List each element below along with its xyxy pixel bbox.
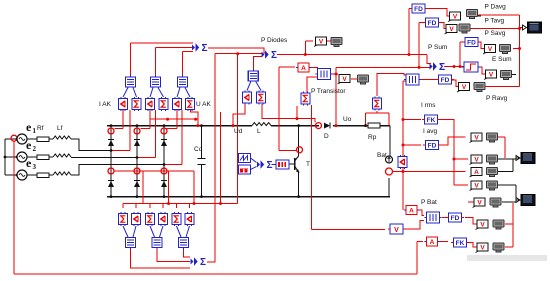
svg-text:Σ: Σ bbox=[439, 62, 445, 73]
svg-text:Bat: Bat bbox=[377, 152, 387, 159]
svg-text:Uo: Uo bbox=[343, 116, 352, 123]
svg-text:L: L bbox=[257, 128, 261, 135]
svg-text:Σ: Σ bbox=[266, 160, 272, 171]
svg-text:I AK: I AK bbox=[99, 101, 112, 108]
svg-text:2: 2 bbox=[33, 145, 37, 153]
svg-text:V: V bbox=[474, 135, 479, 142]
svg-text:1: 1 bbox=[33, 127, 37, 135]
svg-text:Σ: Σ bbox=[201, 43, 207, 54]
svg-text:FK: FK bbox=[427, 117, 436, 124]
svg-text:I rms: I rms bbox=[421, 102, 436, 109]
svg-text:Σ: Σ bbox=[200, 257, 206, 268]
svg-text:V: V bbox=[480, 222, 485, 229]
svg-text:V: V bbox=[474, 157, 479, 164]
svg-text:U AK: U AK bbox=[196, 101, 211, 108]
svg-text:FD: FD bbox=[451, 215, 460, 222]
svg-text:Σ: Σ bbox=[271, 50, 277, 61]
svg-text:I avg: I avg bbox=[423, 128, 437, 135]
svg-text:Co: Co bbox=[194, 146, 203, 153]
svg-text:V: V bbox=[462, 84, 467, 91]
svg-text:D: D bbox=[324, 133, 329, 140]
svg-text:A: A bbox=[474, 169, 479, 176]
svg-text:A: A bbox=[430, 239, 435, 246]
svg-text:V: V bbox=[342, 76, 347, 83]
svg-text:P Diodes: P Diodes bbox=[261, 37, 288, 44]
svg-text:P Transistor: P Transistor bbox=[311, 88, 346, 95]
svg-text:Rf: Rf bbox=[37, 125, 44, 132]
svg-text:V: V bbox=[480, 245, 485, 252]
svg-text:V: V bbox=[489, 72, 494, 79]
svg-text:A: A bbox=[301, 65, 306, 72]
svg-text:FD: FD bbox=[441, 77, 450, 84]
svg-text:P Tavg: P Tavg bbox=[485, 17, 505, 24]
svg-text:FD: FD bbox=[414, 6, 423, 13]
svg-text:V: V bbox=[449, 26, 454, 33]
svg-text:FK: FK bbox=[456, 240, 465, 247]
svg-text:P Davg: P Davg bbox=[485, 4, 507, 11]
svg-text:V: V bbox=[477, 200, 482, 207]
svg-text:V: V bbox=[488, 46, 493, 53]
svg-text:Lf: Lf bbox=[57, 125, 63, 132]
svg-text:T: T bbox=[306, 161, 310, 168]
svg-text:Ud: Ud bbox=[234, 128, 243, 135]
svg-text:P Savg: P Savg bbox=[485, 30, 506, 37]
svg-text:e: e bbox=[26, 138, 32, 152]
svg-text:P Ravg: P Ravg bbox=[486, 95, 508, 102]
svg-text:V: V bbox=[453, 14, 458, 21]
svg-text:Rp: Rp bbox=[368, 134, 377, 141]
svg-text:3: 3 bbox=[33, 163, 37, 171]
svg-text:A: A bbox=[409, 208, 414, 215]
svg-text:V: V bbox=[394, 227, 399, 234]
svg-text:V: V bbox=[474, 183, 479, 190]
svg-text:P Bat: P Bat bbox=[421, 199, 437, 206]
svg-text:E Sum: E Sum bbox=[492, 56, 512, 63]
svg-text:FD: FD bbox=[428, 142, 437, 149]
svg-text:V: V bbox=[319, 39, 324, 46]
svg-text:FD: FD bbox=[428, 20, 437, 27]
svg-text:P Sum: P Sum bbox=[428, 44, 447, 51]
svg-text:e: e bbox=[26, 156, 32, 170]
svg-text:FD: FD bbox=[467, 39, 476, 46]
svg-text:e: e bbox=[26, 120, 32, 134]
